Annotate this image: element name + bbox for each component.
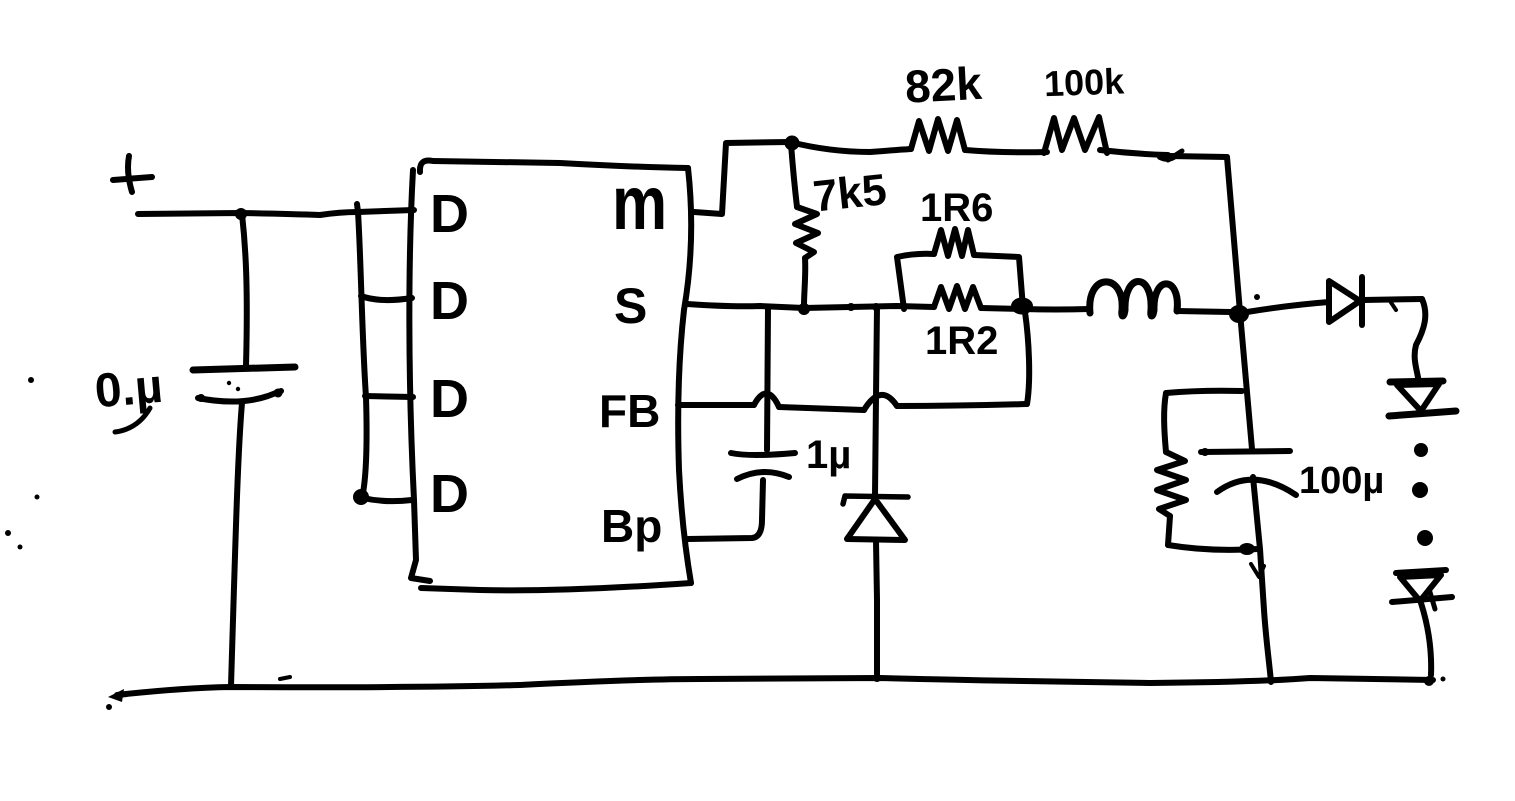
junction S and R1 (798, 303, 810, 315)
wire stub to pin D3 (365, 396, 413, 397)
speck near C1 b (236, 387, 240, 391)
speck near C1 (227, 381, 231, 385)
ellipsis dot 1 (1414, 443, 1428, 457)
wire right vertical mid (1240, 312, 1252, 449)
speck near ground left (106, 704, 112, 710)
junction C3 bottom (1239, 543, 1255, 555)
svg-text:S: S (614, 278, 647, 334)
LED D8 cathode bar (1392, 597, 1452, 602)
svg-text:Bp: Bp (601, 500, 662, 552)
junction S right node (1011, 298, 1033, 315)
svg-text:0.µ: 0.µ (93, 360, 165, 419)
plus terminal (+ input) (113, 156, 152, 192)
wire M pin to top node (694, 142, 789, 214)
wire L1 to switch node (1177, 311, 1230, 312)
resistor R3 100k zigzag (1044, 117, 1107, 153)
inductor L1 (1090, 282, 1178, 317)
junction switch node (1229, 305, 1249, 323)
tick on wire (1390, 301, 1396, 310)
wire ground rail (117, 678, 1433, 695)
wire FB right (897, 404, 1027, 406)
wire input rail (138, 210, 414, 215)
wire FB middle (779, 407, 864, 410)
svg-text:D: D (430, 464, 469, 524)
junction top node (785, 136, 800, 151)
capacitor C2 bottom plate (737, 472, 789, 479)
capacitor C1 top lead (242, 214, 247, 366)
svg-text:D: D (430, 184, 469, 244)
wire LED D8 to ground (1421, 603, 1431, 675)
speck near rail (280, 677, 290, 679)
resistor R4 1R6 zigzag (934, 229, 974, 256)
speck near plus rail (28, 377, 34, 383)
resistor R4 1R6 left lead (897, 254, 934, 309)
wire down to LED1 (1415, 299, 1426, 384)
capacitor C3 block bottom edge (1168, 545, 1258, 550)
capacitor C3 bottom plate (1217, 480, 1296, 495)
LED D8 triangle (1400, 575, 1441, 601)
svg-text:82k: 82k (904, 57, 984, 113)
speck near switch node (1254, 294, 1260, 300)
resistor R6 zigzag (1157, 452, 1186, 516)
svg-text:1R2: 1R2 (925, 319, 998, 363)
arrowhead on top rail (1168, 151, 1182, 160)
ellipsis dot 3 (1417, 530, 1433, 546)
arrow tick on vertical (1251, 564, 1264, 577)
LED D8 top bar (1396, 570, 1446, 573)
diode D5 triangle (847, 499, 905, 540)
wire right vertical upper (1227, 157, 1240, 312)
IC U1 body bottom edge (421, 583, 691, 590)
junction input node (235, 208, 247, 220)
diode D6 triangle (1329, 281, 1360, 322)
wire right vertical lower (1253, 477, 1271, 682)
wire switch node to diode D6 (1247, 302, 1329, 312)
junction drain bus bottom (353, 489, 369, 505)
capacitor C3 top plate (1201, 451, 1290, 452)
capacitor C2 top plate (731, 453, 795, 455)
diode D5 branch top lead (875, 307, 877, 495)
capacitor C1 plate blobs (274, 389, 283, 398)
wire top node to R2 (790, 142, 911, 152)
wire node to inductor (1023, 306, 1089, 313)
IC U1 body left edge (409, 170, 430, 581)
wire drain bus vertical (357, 204, 367, 493)
capacitor C2 branch top lead (767, 308, 768, 450)
resistor R2 82k zigzag (911, 119, 965, 151)
wire stub to pin D4 (363, 498, 412, 501)
LED D7 top bar (1390, 381, 1443, 382)
svg-text:7k5: 7k5 (811, 165, 889, 221)
IC U1 body right edge (678, 168, 691, 583)
capacitor C3 plate end dot (1201, 448, 1209, 456)
speck left a (35, 495, 40, 500)
resistor R1 7k5 zigzag (795, 207, 818, 258)
resistor R1 7k5 top lead (791, 144, 797, 207)
wire stub to pin D2 (361, 296, 412, 300)
resistor R6 left edge lower (1168, 516, 1170, 545)
capacitor C3 block top edge (1166, 391, 1242, 393)
LED D7 cathode bar (1389, 411, 1456, 416)
wire FB loop right edge (1025, 312, 1029, 404)
svg-text:100k: 100k (1043, 60, 1125, 104)
svg-text:1R6: 1R6 (920, 186, 993, 230)
capacitor C1 bottom plate (198, 391, 281, 402)
wire D6 to LED string (1363, 299, 1422, 300)
wire R5 to node (981, 308, 1022, 309)
svg-text:D: D (430, 271, 469, 331)
svg-text:FB: FB (599, 385, 660, 437)
LED D7 triangle (1397, 384, 1439, 411)
resistor R1 7k5 bottom lead (804, 258, 805, 305)
wire FB hop over C2 branch (754, 393, 779, 407)
resistor R4 1R6 right lead (974, 255, 1023, 308)
resistor R5 1R2 zigzag (934, 286, 981, 309)
wire S rail from IC (687, 304, 934, 308)
svg-text:m: m (612, 160, 667, 245)
junction LED string to rail (1424, 676, 1434, 686)
wire arrow to corner (1169, 156, 1227, 157)
wire FB hop over zener branch (864, 395, 897, 410)
ground rail left end arrow (108, 689, 124, 702)
diode D5 cathode bar (843, 496, 908, 504)
junction S small b (872, 303, 880, 311)
wire R2 to R3 (965, 150, 1047, 152)
junction zener to rail (873, 674, 881, 682)
IC U1 body top edge (420, 160, 688, 172)
speck left b (5, 530, 11, 536)
svg-text:1µ: 1µ (806, 433, 851, 477)
capacitor C1 bottom lead (231, 403, 242, 686)
speck left c (18, 545, 23, 550)
ellipsis dot 2 (1412, 482, 1428, 498)
capacitor C1 top plate (193, 367, 295, 370)
svg-text:100µ: 100µ (1299, 460, 1384, 502)
speck right of rail end (1441, 677, 1446, 682)
diode D6 cathode bar (1359, 277, 1365, 325)
capacitor C2 bottom lead (688, 480, 763, 539)
junction S small a (847, 303, 855, 311)
resistor R6 left edge upper (1164, 393, 1166, 452)
wire R3 to corner (1100, 150, 1168, 155)
diode D5 bottom lead (876, 541, 877, 678)
wire FB from IC (678, 402, 754, 408)
svg-text:D: D (430, 369, 469, 429)
